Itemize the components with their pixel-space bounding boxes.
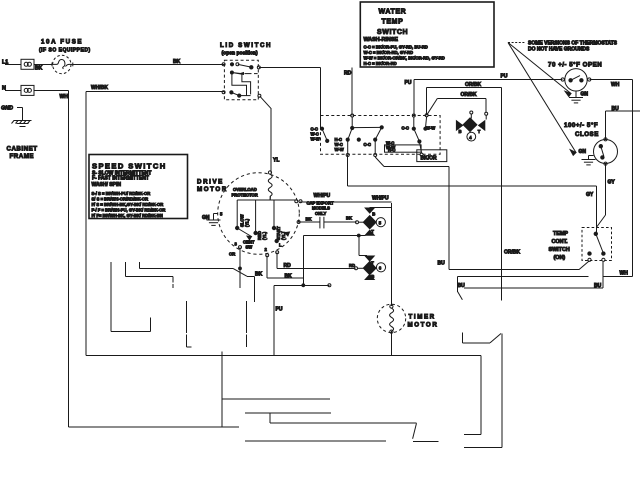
winding START (272, 200, 286, 240)
label 100F CLOSE (564, 122, 599, 138)
svg-text:GN: GN (579, 149, 587, 155)
svg-text:MOTOR: MOTOR (197, 186, 228, 193)
wire WH/PU motor to timer (300, 201, 391, 203)
svg-text:OR/BK: OR/BK (465, 82, 482, 88)
svg-text:B: B (371, 274, 374, 279)
capacitor C1 (297, 216, 352, 229)
svg-text:(IF SO EQUIPPED): (IF SO EQUIPPED) (39, 48, 91, 54)
svg-text:BK: BK (306, 217, 312, 222)
wire lid switch out to water temp switch (259, 66, 321, 68)
wire timer to main line (390, 331, 392, 355)
svg-text:GY: GY (608, 180, 616, 186)
wire thermostat2 diag to switch (596, 215, 605, 228)
svg-text:PU: PU (405, 80, 412, 86)
svg-text:F/ S = BR/WH-BK,GY-BK/ RD/BK-O: F/ S = BR/WH-BK,GY-BK/ RD/BK-OR (92, 202, 164, 207)
wire valve cold coil to switch (458, 275, 589, 277)
wire GY temp box to temp control switch (347, 155, 349, 186)
svg-text:PU: PU (501, 74, 508, 80)
label CAP EXPORT MODELS ONLY (307, 201, 335, 216)
winding RED (254, 200, 267, 240)
svg-text:L: L (279, 243, 282, 248)
wire BU/WH connector1 B to x-rinse (245, 440, 386, 442)
wire OR/BK lower diag (427, 98, 438, 115)
svg-text:N: N (2, 86, 6, 92)
wire PU connector3 to speed switch (124, 262, 126, 277)
svg-text:FRAME: FRAME (10, 153, 35, 160)
wire N feed (5, 89, 21, 91)
svg-text:BK/OR: BK/OR (421, 156, 438, 162)
wire BK branch to connector 6 (358, 236, 360, 256)
svg-text:LID SWITCH: LID SWITCH (220, 42, 272, 49)
connector plug N (21, 85, 34, 95)
svg-text:WH: WH (60, 94, 69, 100)
svg-text:OR: OR (229, 252, 235, 257)
ground GND cabinet (1, 106, 32, 127)
svg-text:GND: GND (1, 106, 13, 112)
note thermostats (508, 40, 618, 155)
svg-text:F-/ F = BR/WH-PU, GY-BK/ RD/BK: F-/ F = BR/WH-PU, GY-BK/ RD/BK-OR (92, 207, 166, 212)
svg-text:DRIVE: DRIVE (197, 178, 224, 185)
wire BK valve diag (490, 334, 501, 343)
wire PU stub motor (274, 284, 330, 286)
wire RD legend to contact box (351, 68, 353, 116)
wire x-rinse to water level switch (413, 440, 438, 442)
wire GY/BK connector1 T (245, 412, 331, 414)
wire WH vertical (68, 90, 70, 427)
svg-text:CLOSE: CLOSE (575, 131, 599, 138)
svg-text:YL: YL (273, 158, 279, 164)
wire N to WH corner (34, 89, 69, 91)
label TEMP CONT SWITCH (549, 231, 570, 261)
wire full contact up (464, 434, 481, 436)
svg-text:WH: WH (611, 82, 620, 88)
wire PU connector 7 drop (273, 285, 275, 342)
svg-text:OR/BK: OR/BK (504, 250, 521, 256)
legend box WATER TEMP SWITCH (360, 2, 494, 67)
connector 5 (356, 208, 386, 235)
wire BR water level to valve (464, 447, 502, 449)
legend box SPEED SWITCH (89, 155, 188, 219)
svg-text:B: B (459, 129, 462, 134)
label TIMER MOTOR (408, 314, 439, 329)
connector 4 (456, 111, 487, 141)
svg-text:S-/ S = BR/WH-PU/ RD/BK-OR: S-/ S = BR/WH-PU/ RD/BK-OR (92, 191, 151, 196)
svg-text:2: 2 (265, 247, 268, 252)
svg-text:BK: BK (35, 66, 43, 72)
svg-text:BU: BU (594, 283, 602, 289)
svg-text:5: 5 (220, 212, 223, 217)
svg-text:L1: L1 (2, 59, 8, 65)
svg-text:WH/PU: WH/PU (372, 195, 389, 201)
svg-text:BK: BK (173, 59, 181, 65)
svg-text:W-C = BK/OR-RD, GY-RD: W-C = BK/OR-RD, GY-RD (364, 50, 414, 55)
svg-text:RD: RD (344, 71, 352, 77)
svg-text:5: 5 (379, 221, 382, 226)
motor internal bus (237, 196, 302, 203)
junction PU/BK (302, 284, 305, 287)
wire BR/WH drop (185, 301, 187, 333)
wire WH/BK main bottom run (86, 354, 481, 356)
label LID SWITCH (220, 42, 272, 57)
svg-text:DO NOT HAVE GROUNDS: DO NOT HAVE GROUNDS (528, 46, 590, 52)
wire x-rinse entry diag (413, 423, 417, 439)
svg-text:C-C: C-C (364, 142, 371, 147)
wire lid switch exit diag (260, 96, 271, 108)
wire cold coil diag (458, 292, 463, 300)
wire BU diag to temp cont switch (579, 261, 588, 269)
drive motor M1 (218, 173, 300, 255)
centrifugal switch CENT SW (229, 228, 255, 257)
thermostat TH1 (561, 69, 591, 91)
wire PU lid line vert motor (270, 108, 272, 172)
wire RD temp box to BU corner (384, 166, 449, 168)
svg-text:W-W: W-W (311, 137, 320, 142)
wire GY/BK lower to x-rinse (269, 413, 271, 423)
wire BU right top to thermostat 2 (606, 110, 640, 112)
wire WH to connector 1 (69, 426, 239, 428)
svg-text:RD: RD (284, 263, 292, 269)
svg-text:6: 6 (379, 266, 382, 271)
wire GY connector3 to wash wiper (110, 262, 112, 332)
thermostat TH2 (594, 138, 618, 166)
ground GN thermostat2 (579, 149, 596, 165)
svg-text:TIMER: TIMER (409, 314, 436, 321)
lid switch S2 (222, 60, 261, 100)
wire BU vertical (448, 167, 450, 270)
timer motor (377, 304, 405, 333)
svg-text:BK: BK (285, 274, 293, 280)
svg-text:TEMP: TEMP (553, 231, 568, 237)
wire motor terminal 3 drop (239, 247, 241, 288)
svg-text:SWITCH: SWITCH (377, 29, 408, 36)
svg-text:GY: GY (586, 192, 594, 198)
wire connector 8 right drop (221, 352, 223, 428)
wire WH/BK vertical (85, 92, 87, 356)
svg-text:PROTECTOR: PROTECTOR (232, 192, 258, 197)
svg-text:RD: RD (349, 263, 355, 268)
wire thermostat 2 down (605, 164, 607, 216)
svg-text:10A FUSE: 10A FUSE (41, 39, 83, 46)
svg-text:(ON): (ON) (554, 255, 566, 261)
svg-text:C-C = BK/OR-PU, GY-RD, BU-RD: C-C = BK/OR-PU, GY-RD, BU-RD (364, 45, 428, 50)
wire RD motor to connector 6 (276, 252, 278, 268)
wire fuse to lid switch BK (34, 63, 52, 65)
svg-text:S/ S = BR/WH-OR/RD/BK-OR: S/ S = BR/WH-OR/RD/BK-OR (92, 197, 149, 202)
svg-text:CABINET: CABINET (7, 146, 38, 153)
wire BU to temp cont switch left (449, 268, 579, 270)
wire WH/BK lid switch lower (86, 91, 225, 93)
svg-text:BU: BU (612, 106, 620, 112)
svg-text:T: T (478, 129, 481, 134)
svg-text:BU: BU (458, 283, 466, 289)
overload protector (232, 171, 273, 200)
svg-text:TEMP: TEMP (382, 18, 404, 25)
water temp switch contact box (311, 114, 441, 157)
svg-text:ONLY: ONLY (315, 211, 326, 216)
wire OR/BK upper (427, 87, 502, 89)
svg-text:W-W = BK/OR-OR/BK, BK/OR-RD, G: W-W = BK/OR-OR/BK, BK/OR-RD, GY-RD (364, 55, 445, 60)
svg-text:BU: BU (438, 261, 446, 267)
node PU end terminal (328, 284, 331, 287)
svg-text:WASH/ SPIN: WASH/ SPIN (92, 182, 122, 188)
svg-text:WH: WH (620, 270, 629, 276)
wire to connector 2 (222, 398, 330, 400)
svg-text:F- FAST INTERMITTENT: F- FAST INTERMITTENT (92, 175, 149, 181)
wire full line down to water level switch (480, 355, 482, 434)
winding SLOW (236, 200, 250, 230)
svg-text:PU: PU (276, 307, 283, 313)
ground GN motor (202, 212, 223, 226)
fuse F1 (52, 55, 73, 73)
connector 6 (349, 256, 386, 280)
label BK/OR callout (417, 150, 447, 162)
svg-text:OR/BK: OR/BK (461, 92, 478, 98)
wire L1 feed (5, 63, 21, 65)
svg-text:WH/BK: WH/BK (91, 85, 108, 91)
svg-text:B: B (372, 212, 375, 217)
svg-text:BK: BK (346, 216, 352, 221)
svg-text:H-C = BK/OR-RD: H-C = BK/OR-RD (364, 61, 397, 66)
svg-text:C-C: C-C (402, 125, 409, 130)
label 10A FUSE (39, 39, 91, 54)
svg-text:BK: BK (255, 272, 263, 278)
wire down to temp switch contacts (320, 67, 322, 128)
motor start contact (265, 228, 290, 257)
wire BU switch right to valve cold (464, 287, 603, 289)
svg-text:F/ F= BR/WH-BK, GY-BK/ RD/BK-B: F/ F= BR/WH-BK, GY-BK/ RD/BK-BN (92, 213, 163, 218)
wire OR/BK lower (437, 97, 486, 99)
svg-text:4: 4 (469, 135, 472, 140)
wire BK capacitor run (299, 221, 320, 223)
svg-text:H-C: H-C (388, 147, 395, 152)
svg-text:OVERLOAD: OVERLOAD (233, 187, 257, 192)
wire PU temp switch to thermostat (413, 80, 415, 116)
temp control switch (on) (582, 228, 612, 262)
wire BK motor jog (266, 255, 268, 278)
connector plug L1 (21, 59, 34, 69)
svg-text:W-W: W-W (335, 147, 344, 152)
svg-text:MOTOR: MOTOR (408, 322, 439, 329)
wire OR connector3 to speed switch (138, 262, 140, 268)
wire RD temp box diag (375, 157, 384, 167)
svg-text:3: 3 (235, 241, 238, 246)
svg-text:WH/PU: WH/PU (314, 193, 331, 199)
wire connector5 top to timer line (370, 207, 392, 209)
svg-text:(YL): (YL) (262, 231, 267, 240)
svg-text:CONT.: CONT. (552, 239, 569, 245)
svg-text:GN: GN (581, 92, 589, 98)
label CABINET FRAME (7, 146, 38, 161)
svg-text:WATER: WATER (379, 8, 407, 15)
junction BK tee (357, 234, 360, 237)
svg-text:70 +/- 5°F OPEN: 70 +/- 5°F OPEN (548, 62, 602, 69)
svg-text:WASH-RINSE: WASH-RINSE (364, 37, 399, 43)
ground GN thermostat1 (569, 91, 588, 103)
node contact C-C (352, 126, 382, 128)
wire BK valve bottoms (462, 333, 464, 343)
wire RD/BK drop (245, 301, 247, 333)
wire OR/BK vertical to hot valve (501, 88, 503, 301)
svg-text:SPEED SWITCH: SPEED SWITCH (92, 162, 167, 171)
junction OR motor tap (239, 267, 242, 270)
svg-text:SWITCH: SWITCH (549, 247, 570, 253)
label DRIVE MOTOR (197, 178, 228, 193)
svg-text:100+/- 5°F: 100+/- 5°F (564, 122, 598, 129)
svg-text:SW: SW (246, 244, 253, 249)
svg-text:(open position): (open position) (222, 51, 258, 57)
wire OR diag (233, 268, 247, 276)
svg-text:(YL): (YL) (245, 218, 250, 227)
wire WH thermostat to right edge (589, 79, 632, 81)
